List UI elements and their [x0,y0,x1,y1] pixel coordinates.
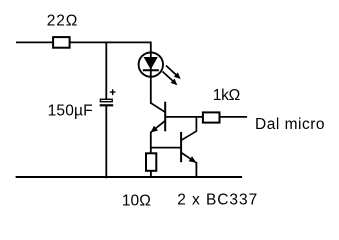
transistor Q2 emitter diagonal [181,153,196,163]
LED D1 cathode bar [143,69,159,71]
svg-text:10Ω: 10Ω [122,192,151,209]
wire Q2 emitter to ground [195,162,197,177]
wire Q1 emitter node down to 10 ohm resistor [150,132,152,153]
transistor Q1 emitter diagonal [150,121,165,133]
transistor Q2 emitter arrowhead [189,156,197,163]
capacitor C1 bottom plate [100,104,114,106]
LED D1 light arrow 2 shaft [163,72,174,82]
wire top rail [16,41,151,43]
LED D1 light arrow 2 head [171,79,178,86]
capacitor C1 plus sign [110,89,116,95]
LED D1 light arrow 1 head [174,72,181,79]
svg-text:2 x BC337: 2 x BC337 [177,191,257,208]
LED D1 circle [139,52,163,76]
transistor Q1 collector diagonal [151,103,165,112]
svg-text:22Ω: 22Ω [47,12,78,29]
wire LED branch down [150,42,152,103]
LED D1 light arrow 1 shaft [166,66,177,76]
LED D1 triangle [144,57,158,70]
resistor R3 1k body [203,112,220,122]
svg-text:1kΩ: 1kΩ [213,87,241,104]
wire capacitor branch lower [105,105,107,178]
wire capacitor branch upper [105,42,107,99]
svg-text:Dal micro: Dal micro [255,116,325,133]
wire Q2 base [151,147,181,149]
wire 1k resistor to micro [220,116,248,118]
capacitor C1 top plate [100,99,112,101]
transistor Q1 emitter arrowhead [150,126,158,133]
wire 10 ohm resistor to ground [150,171,152,177]
ground rail [16,176,243,178]
transistor Q1 base bar [164,102,166,132]
transistor Q1 base wire to 1k resistor [165,116,202,118]
svg-text:150µF: 150µF [48,102,93,119]
resistor R2 10 ohm body [146,153,156,171]
transistor Q2 collector vertical and diagonal [181,117,196,140]
transistor Q2 base bar [180,132,182,162]
resistor R1 22 ohm body [53,37,70,48]
